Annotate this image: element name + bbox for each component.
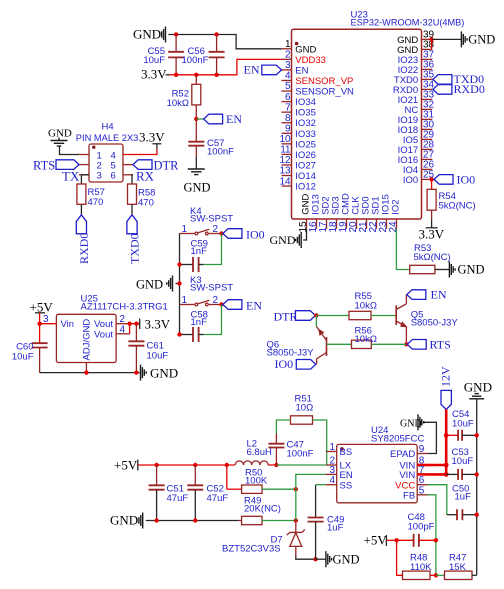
pin 4 (U24 SS): [326, 475, 352, 491]
wire +5V to U25 pin3 / C60: [39, 313, 41, 343]
svg-text:GND: GND: [333, 552, 360, 566]
wire EN flag stub: [196, 118, 203, 120]
junction FB/C48: [434, 538, 438, 542]
svg-text:SW-SPST: SW-SPST: [190, 283, 233, 294]
wire H4 pin1 to GND: [60, 146, 80, 155]
junction C53/GND: [475, 472, 479, 476]
wire R49 to EN column: [262, 520, 296, 522]
wire C58 to EN node: [204, 305, 222, 335]
svg-text:10uF: 10uF: [12, 352, 34, 363]
svg-text:DTR: DTR: [274, 309, 298, 323]
svg-text:IO0: IO0: [403, 175, 418, 186]
ground GND (3.3V decoupling, top rail): [133, 27, 166, 43]
net label RX: [136, 169, 155, 184]
svg-text:DTR: DTR: [154, 159, 180, 173]
netflag IO0 (Q6 collector): [275, 357, 316, 371]
svg-text:IO34: IO34: [295, 97, 316, 108]
pin 23 (U23 IO15): [378, 194, 392, 232]
svg-text:24: 24: [388, 221, 399, 233]
junction VIN pin7: [444, 472, 449, 477]
pin 34 (U23 RXD0): [393, 80, 435, 96]
svg-text:IO26: IO26: [295, 150, 316, 161]
ground GND (R53): [449, 262, 484, 278]
junction U23 pin39: [429, 37, 433, 41]
ground GND (U24 EPAD): [400, 414, 424, 430]
wire U23 pin24 to R53: [396, 229, 409, 270]
svg-text:20K(NC): 20K(NC): [244, 504, 281, 515]
svg-text:6: 6: [111, 171, 116, 182]
svg-text:1nF: 1nF: [191, 317, 208, 328]
svg-text:10kΩ: 10kΩ: [355, 334, 377, 345]
svg-text:GND: GND: [468, 33, 495, 47]
svg-text:14: 14: [279, 176, 291, 187]
svg-text:4: 4: [329, 475, 335, 486]
wire H4 pin6 to R58: [132, 175, 133, 184]
svg-text:PIN MALE 2X3: PIN MALE 2X3: [76, 133, 139, 143]
svg-text:IO0: IO0: [457, 173, 476, 187]
wire GND rail to U23 pin1: [168, 35, 281, 49]
svg-text:BZT52C3V3S: BZT52C3V3S: [222, 544, 281, 555]
svg-text:ESP32-WROOM-32U(4MB): ESP32-WROOM-32U(4MB): [351, 18, 465, 28]
svg-text:GND: GND: [400, 419, 422, 430]
svg-text:RTS: RTS: [430, 338, 451, 352]
pin 11 (U23 IO26): [280, 145, 316, 161]
wire 12V to VIN: [445, 409, 448, 474]
junction FB/R48/R47: [434, 573, 438, 577]
regulator U25 body: [56, 314, 116, 362]
pin 8 (U24 VIN): [399, 456, 427, 472]
pin 1 (U24 BS): [326, 442, 352, 458]
ground GND (under C57): [184, 169, 211, 195]
junction VIN pin8: [444, 463, 449, 468]
svg-text:IO14: IO14: [295, 171, 316, 182]
svg-text:Vin: Vin: [61, 319, 75, 330]
pin 4 (U25 Vout): [116, 324, 130, 335]
wire R50 to EN column: [262, 488, 296, 490]
net label 3.3V (U25 out): [140, 317, 171, 332]
svg-text:H4: H4: [102, 122, 114, 133]
junction Q5 emitter RTS: [404, 342, 408, 346]
svg-text:3.3V: 3.3V: [141, 67, 167, 82]
pin 1 (H4): [79, 150, 102, 161]
svg-text:12V: 12V: [438, 366, 452, 387]
pin 18 (U23 SD3): [328, 196, 342, 232]
pin 22 (U23 SD1): [368, 196, 382, 232]
pin 8 (U23 IO32): [282, 113, 316, 129]
pin 36 (U23 IO22): [398, 60, 435, 76]
wire U24 FB column: [428, 495, 436, 576]
pin 32 (U23 NC): [404, 100, 434, 116]
resistor R53 5k(NC): [410, 243, 451, 274]
wire R48 to FB node: [430, 574, 436, 576]
svg-text:+5V: +5V: [114, 458, 138, 473]
pin 9 (U23 IO33): [282, 123, 316, 139]
wire U23 pin38 to pin39: [431, 39, 433, 49]
wire +5V rail: [138, 464, 235, 466]
svg-text:RTS: RTS: [33, 159, 55, 173]
wire +5V down to R48: [397, 540, 403, 575]
svg-text:TXD0: TXD0: [128, 233, 142, 264]
wire C59 to IO0 node: [204, 234, 222, 265]
svg-text:100nF: 100nF: [207, 147, 234, 158]
pin 17 (U23 SD2): [318, 196, 332, 232]
capacitor C48 100pF: [397, 512, 436, 547]
connector H4 PIN MALE 2X3: [76, 122, 139, 183]
junction +5V R50: [225, 463, 229, 467]
svg-text:3: 3: [43, 314, 49, 325]
junction C50/GND: [475, 513, 479, 517]
capacitor C51 47uF: [149, 465, 189, 521]
junction 3.3V rail C55: [174, 73, 178, 77]
pin 15 (U23 GND): [298, 194, 312, 233]
pin 24 (U23 IO2): [388, 199, 402, 232]
netflag IO0 (U23 pin25): [434, 173, 475, 187]
junction top rail C55: [174, 32, 178, 36]
svg-text:1nF: 1nF: [191, 246, 208, 257]
wire D7 to GND: [296, 556, 316, 560]
svg-text:GND: GND: [458, 263, 485, 277]
junction +5V C51: [154, 463, 158, 467]
capacitor C54 10uF: [446, 409, 477, 441]
wire DTR to Q6 emitter: [315, 316, 317, 327]
junction U25 Vout b: [134, 322, 138, 326]
junction +5V C48: [394, 538, 398, 542]
pin 3 (U25 Vin): [40, 314, 57, 325]
wire L2 to LX node: [268, 464, 276, 466]
svg-text:IO32: IO32: [295, 118, 316, 129]
svg-text:10: 10: [279, 134, 291, 145]
junction EN/R50: [294, 487, 298, 491]
netflag RXD0: [76, 215, 91, 264]
svg-text:TX: TX: [62, 169, 80, 184]
pin 6 (U23 IO34): [282, 92, 316, 108]
svg-text:5kΩ(NC): 5kΩ(NC): [439, 201, 476, 212]
junction U25 pin3: [37, 322, 41, 326]
svg-text:SENSOR_VP: SENSOR_VP: [295, 76, 353, 87]
wire U24 SS to C49: [316, 484, 326, 486]
svg-text:1: 1: [329, 442, 335, 453]
svg-text:4: 4: [285, 71, 291, 82]
netflag TXD0 (U23 pin35): [433, 72, 484, 86]
svg-text:10kΩ: 10kΩ: [167, 98, 189, 109]
U24 value SY8205FCC: [371, 434, 424, 445]
svg-text:100pF: 100pF: [408, 522, 435, 533]
svg-text:S8050-J3Y: S8050-J3Y: [411, 318, 459, 329]
switch K4 SW-SPST: [180, 206, 234, 235]
wire R57 to RXD0 flag: [80, 204, 82, 215]
pin 4 (H4): [111, 150, 116, 161]
svg-text:5: 5: [419, 485, 425, 496]
svg-text:IO33: IO33: [295, 129, 316, 140]
svg-text:100nF: 100nF: [287, 449, 314, 460]
pin 27 (U23 IO16): [398, 150, 435, 166]
svg-text:GND: GND: [184, 181, 211, 195]
wire U25 ground rail: [40, 372, 140, 374]
resistor R49 20K(NC): [239, 496, 281, 525]
wire ground rail (switches): [179, 234, 181, 335]
netflag EN (R52 node): [204, 112, 243, 126]
pin 35 (U23 TXD0): [394, 70, 435, 86]
resistor R51 10: [291, 394, 314, 425]
svg-text:IO2: IO2: [391, 199, 402, 214]
junction EN/R49/D7: [294, 518, 298, 522]
ground GND (D7/C49): [326, 551, 360, 567]
wire +5V to C48/R48: [386, 539, 396, 541]
netflag EN (K3): [223, 298, 262, 312]
U24 designator: [371, 425, 388, 436]
capacitor C57: [188, 119, 234, 169]
pin 21 (U23 SD0): [358, 196, 372, 232]
ground GND (H4 pin1): [48, 128, 72, 147]
wire right GND rail: [476, 399, 478, 576]
svg-text:SENSOR_VN: SENSOR_VN: [295, 87, 354, 98]
wire R47 to GND rail: [472, 574, 477, 576]
pin 1 (U23 GND): [282, 39, 317, 55]
svg-text:1uF: 1uF: [455, 492, 472, 503]
netflag EN (U23 pin3): [244, 63, 282, 77]
pin 28 (U23 IO17): [398, 140, 435, 156]
svg-text:6: 6: [285, 92, 291, 103]
node EN (junction R52/C57): [194, 117, 198, 121]
net label 3.3V (H4): [139, 130, 165, 150]
svg-text:GND: GND: [136, 278, 163, 292]
svg-text:3.3V: 3.3V: [139, 130, 165, 145]
svg-text:9: 9: [419, 444, 425, 455]
pin 3 (U24 EN): [326, 465, 353, 481]
svg-text:10uF: 10uF: [452, 456, 474, 467]
svg-text:1: 1: [285, 39, 291, 50]
svg-text:VDD33: VDD33: [295, 55, 326, 66]
wire R51 left leg: [276, 420, 290, 434]
transistor Q6 S8050-J3Y: [267, 327, 327, 365]
svg-text:EN: EN: [246, 298, 262, 312]
capacitor C59 1nF: [180, 239, 208, 273]
ground GND (U23 pin15): [270, 232, 302, 248]
svg-text:EPAD: EPAD: [390, 449, 415, 460]
capacitor C53 10uF: [446, 447, 477, 480]
netflag RXD0 (U23 pin34): [433, 82, 485, 96]
netflag IO0 (K4): [223, 227, 265, 241]
svg-text:100nF: 100nF: [182, 55, 209, 66]
junction C61 bottom: [134, 370, 138, 374]
svg-text:110K: 110K: [410, 562, 432, 573]
pin 38 (U23 GND): [397, 40, 434, 56]
pin 26 (U23 IO4): [403, 160, 435, 176]
svg-text:GND: GND: [48, 128, 72, 140]
svg-text:2: 2: [285, 50, 291, 61]
svg-text:GND: GND: [133, 27, 161, 42]
junction U25 ADJ: [84, 370, 88, 374]
svg-text:SS: SS: [340, 480, 353, 491]
pin 10 (U23 IO25): [279, 134, 315, 150]
junction VIN C54: [444, 433, 449, 438]
pin 30 (U23 IO18): [398, 120, 435, 136]
netflag EN (Q5 collector): [407, 287, 447, 301]
svg-text:47uF: 47uF: [207, 493, 229, 504]
svg-text:5: 5: [285, 81, 291, 92]
wire U24 pin7 VIN: [428, 473, 447, 476]
resistor R47 15K: [445, 553, 473, 580]
node DTR: [314, 313, 318, 317]
svg-text:10uF: 10uF: [143, 55, 165, 66]
wire H4 pin3 to R57: [81, 175, 89, 184]
pin 4 (U23 SENSOR_VP): [282, 71, 354, 87]
capacitor C52 47uF: [187, 465, 228, 521]
junction 3.3V rail R52: [194, 73, 198, 77]
svg-text:GND: GND: [464, 380, 492, 395]
resistor R58 470: [128, 184, 156, 209]
svg-text:11: 11: [280, 145, 291, 156]
wire U25 pin4 to pin2: [129, 324, 131, 334]
svg-text:3: 3: [97, 171, 102, 182]
net label +5V (input rail): [114, 458, 138, 473]
svg-text:7: 7: [285, 102, 291, 113]
junction switch-rail GND: [177, 281, 181, 285]
pin 33 (U23 IO21): [398, 90, 435, 106]
junction +5V C52: [193, 463, 197, 467]
svg-text:SW-SPST: SW-SPST: [190, 214, 233, 225]
svg-text:BS: BS: [340, 447, 353, 458]
svg-text:RXD0: RXD0: [454, 82, 485, 96]
junction LX/C47: [274, 463, 278, 467]
pin 16 (U23 IO13): [308, 194, 322, 232]
resistor R54 5k(NC): [427, 179, 476, 211]
net label TX: [62, 169, 80, 184]
svg-text:6.8uH: 6.8uH: [247, 447, 272, 458]
wire Q6 base to R56: [327, 343, 352, 345]
pin 7 (U23 IO35): [282, 102, 316, 118]
wire U24 VCC to C50: [428, 485, 458, 515]
wire R55 to Q5 base: [371, 315, 396, 317]
junction C54/GND: [475, 433, 479, 437]
wire H4 pin4 to 3.3V: [123, 149, 157, 155]
svg-text:4: 4: [120, 324, 126, 335]
svg-text:RXD0: RXD0: [77, 233, 91, 264]
diode D7 BZT52C3V3S (zener): [222, 521, 305, 556]
svg-text:IO0: IO0: [246, 227, 265, 241]
resistor R56 10k: [352, 326, 377, 349]
resistor R48 110K: [403, 553, 433, 580]
svg-text:12: 12: [279, 155, 291, 166]
pin 2 (U25 Vout): [116, 314, 130, 325]
svg-text:FB: FB: [403, 491, 415, 502]
pin 2 (H4): [79, 160, 102, 171]
junction top rail C56: [214, 32, 218, 36]
net label 3.3V (R54): [419, 210, 445, 241]
netflag RTS (H4 pin2): [33, 159, 79, 173]
wire R51 right leg: [313, 420, 327, 465]
svg-text:10kΩ: 10kΩ: [355, 301, 377, 312]
pin 9 (U24 EPAD): [390, 444, 427, 460]
junction 3.3V rail C56: [214, 73, 218, 77]
switch K3 SW-SPST: [180, 275, 234, 306]
transistor Q5 S8050-J3Y: [396, 295, 458, 345]
svg-text:10Ω: 10Ω: [296, 403, 314, 414]
wire U25 ADJ stub: [85, 363, 87, 373]
netflag RTS: [407, 338, 451, 352]
U23 value ESP32-WROOM-32U(4MB): [351, 18, 465, 28]
capacitor C50 1uF: [452, 484, 477, 521]
wire U25 Vout to 3.3V: [130, 323, 140, 325]
pin 31 (U23 IO19): [398, 110, 435, 126]
wire FB node to R47: [436, 574, 445, 576]
svg-text:SY8205FCC: SY8205FCC: [371, 434, 424, 445]
pin 5 (U23 SENSOR_VN): [282, 81, 355, 97]
wire U24 EPAD to GND: [424, 422, 436, 453]
net label +5V (divider): [364, 533, 388, 548]
junction C58 left: [177, 332, 181, 336]
ground GND (input rail): [110, 513, 143, 529]
pin 12 (U23 IO27): [279, 155, 315, 171]
capacitor C55: [143, 35, 184, 75]
svg-text:10uF: 10uF: [452, 419, 474, 430]
svg-text:470: 470: [138, 198, 154, 209]
pin 19 (U23 CMD): [338, 193, 352, 232]
svg-text:10uF: 10uF: [147, 351, 169, 362]
netflag DTR (Q6): [274, 309, 316, 323]
svg-text:3.3V: 3.3V: [419, 227, 445, 242]
resistor R52 10k: [167, 75, 201, 119]
wire R56 to RTS node: [371, 343, 406, 345]
svg-text:EN: EN: [295, 65, 308, 76]
svg-text:GND: GND: [150, 366, 178, 381]
svg-text:AZ1117CH-3.3TRG1: AZ1117CH-3.3TRG1: [81, 302, 168, 313]
svg-text:5kΩ(NC): 5kΩ(NC): [414, 252, 451, 263]
svg-text:EN: EN: [431, 287, 447, 301]
svg-text:+5V: +5V: [364, 533, 388, 548]
inductor L2 6.8uH: [235, 439, 272, 466]
svg-text:IO12: IO12: [295, 182, 316, 193]
pin 3 (U23 EN): [282, 60, 309, 76]
netflag DTR (H4 pin5): [133, 159, 179, 173]
svg-text:IO35: IO35: [295, 108, 316, 119]
resistor R50 100K: [227, 465, 268, 493]
pin 6 (U24 VCC): [395, 475, 427, 491]
pin 5 (U24 FB): [403, 485, 427, 501]
wire LX node to U24 pin2: [276, 464, 325, 466]
pin 5 (H4): [111, 160, 134, 171]
svg-text:IO0: IO0: [275, 357, 294, 371]
svg-text:100K: 100K: [245, 476, 268, 487]
svg-text:470: 470: [88, 197, 104, 208]
wire DTR to R55: [316, 315, 349, 317]
wire U24 pin8 VIN: [428, 464, 447, 467]
svg-text:IO25: IO25: [295, 139, 316, 150]
capacitor C49 1uF: [308, 485, 345, 560]
capacitor C56: [182, 35, 225, 75]
capacitor C61 10uF: [128, 324, 168, 373]
ground GND (right rail): [464, 380, 492, 399]
U25 designator: [81, 294, 98, 305]
regulator U24 body: [337, 444, 418, 502]
U23 body: [292, 29, 422, 219]
pin 2 (U23 VDD33): [282, 50, 326, 66]
pin 13 (U23 IO14): [279, 166, 315, 182]
junction GND C51: [154, 518, 158, 522]
netflag TXD0: [127, 215, 142, 264]
pin 39 (U23 GND): [397, 30, 434, 46]
svg-text:Vout: Vout: [94, 329, 113, 340]
junction U23 pin25 IO0: [429, 177, 433, 181]
ground GND (U23 pin39): [432, 31, 495, 47]
resistor R55 10k: [349, 291, 377, 320]
svg-text:RX: RX: [136, 169, 155, 184]
junction GND C52: [193, 518, 197, 522]
op-amp U23 designator: [351, 10, 368, 21]
svg-text:47uF: 47uF: [167, 493, 189, 504]
ground GND (switch rail): [136, 276, 180, 292]
capacitor C47 100nF: [268, 434, 313, 466]
